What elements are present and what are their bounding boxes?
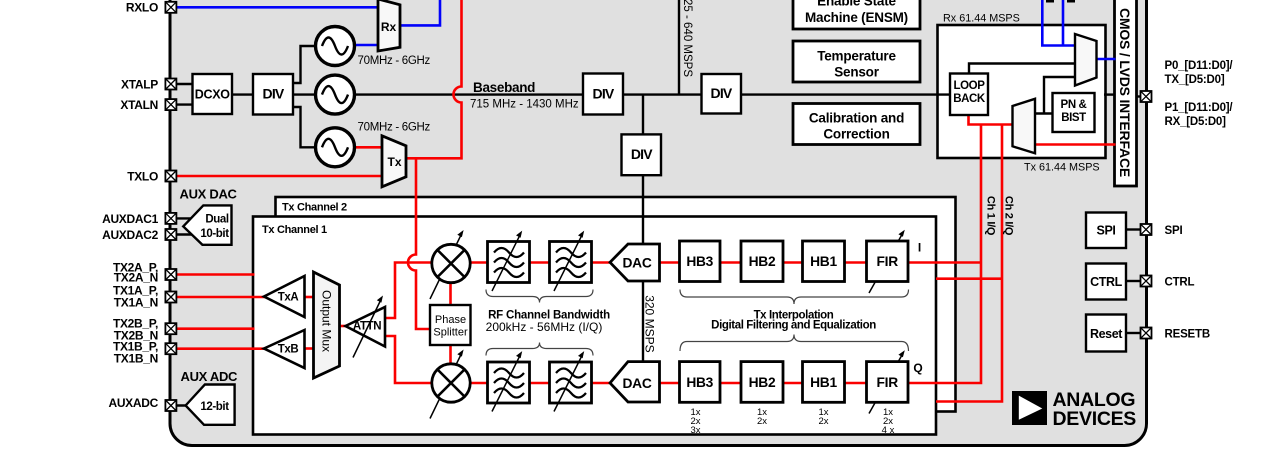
svg-text:Tx 61.44 MSPS: Tx 61.44 MSPS xyxy=(1024,162,1100,174)
svg-text:AUXADC: AUXADC xyxy=(108,396,158,410)
svg-text:FIR: FIR xyxy=(877,375,899,390)
svg-text:HB3: HB3 xyxy=(686,254,713,269)
svg-text:BACK: BACK xyxy=(953,93,986,105)
svg-text:Phase: Phase xyxy=(435,314,466,326)
svg-text:DIV: DIV xyxy=(263,85,285,101)
svg-text:SPI: SPI xyxy=(1165,225,1183,237)
svg-text:DEVICES: DEVICES xyxy=(1053,408,1137,430)
svg-text:Splitter: Splitter xyxy=(433,326,468,338)
svg-text:XTALN: XTALN xyxy=(120,98,158,112)
svg-text:Calibration and: Calibration and xyxy=(809,111,904,126)
svg-text:CTRL: CTRL xyxy=(1165,277,1195,289)
svg-text:HB2: HB2 xyxy=(749,375,776,390)
svg-text:Digital Filtering and Equaliza: Digital Filtering and Equalization xyxy=(711,320,876,332)
svg-text:DIV: DIV xyxy=(711,85,733,101)
svg-text:CTRL: CTRL xyxy=(1090,275,1122,289)
svg-text:Tx Channel 2: Tx Channel 2 xyxy=(282,202,347,214)
svg-text:TX_[D5:D0]: TX_[D5:D0] xyxy=(1165,74,1225,86)
svg-text:BIST: BIST xyxy=(1061,112,1086,124)
svg-text:I: I xyxy=(918,241,921,255)
svg-text:AUXDAC2: AUXDAC2 xyxy=(102,228,159,242)
svg-text:TXLO: TXLO xyxy=(127,169,158,183)
svg-text:Dual: Dual xyxy=(205,214,229,226)
svg-text:AUX DAC: AUX DAC xyxy=(180,187,238,202)
svg-text:P1_[D11:D0]/: P1_[D11:D0]/ xyxy=(1165,102,1234,114)
svg-text:DIV: DIV xyxy=(631,146,653,162)
svg-text:TxB: TxB xyxy=(278,344,299,356)
svg-text:DAC: DAC xyxy=(623,376,652,391)
svg-text:RX_[D5:D0]: RX_[D5:D0] xyxy=(1165,116,1227,128)
svg-text:Ch 2 I/Q: Ch 2 I/Q xyxy=(1003,196,1015,236)
svg-text:Tx Channel 1: Tx Channel 1 xyxy=(262,224,327,236)
svg-text:HB2: HB2 xyxy=(749,254,776,269)
svg-text:Temperature: Temperature xyxy=(817,49,896,64)
svg-text:PN &: PN & xyxy=(1061,99,1087,111)
svg-text:Ch 1 I/Q: Ch 1 I/Q xyxy=(985,196,997,236)
svg-text:LOOP: LOOP xyxy=(954,80,986,92)
svg-text:Tx: Tx xyxy=(387,155,401,169)
svg-text:Machine (ENSM): Machine (ENSM) xyxy=(805,10,908,25)
svg-text:DCXO: DCXO xyxy=(195,88,230,102)
svg-text:Rx: Rx xyxy=(381,20,397,34)
svg-text:320 MSPS: 320 MSPS xyxy=(643,295,657,352)
svg-text:70MHz - 6GHz: 70MHz - 6GHz xyxy=(358,55,431,67)
svg-text:TX1B_N: TX1B_N xyxy=(114,352,158,366)
svg-text:25 - 640 MSPS: 25 - 640 MSPS xyxy=(681,0,693,77)
svg-text:CMOS / LVDS INTERFACE: CMOS / LVDS INTERFACE xyxy=(1117,8,1133,177)
svg-text:FIR: FIR xyxy=(877,254,899,269)
svg-text:Correction: Correction xyxy=(823,127,889,142)
svg-text:2x: 2x xyxy=(757,416,767,427)
svg-text:HB1: HB1 xyxy=(810,375,837,390)
svg-text:3x: 3x xyxy=(690,425,700,436)
svg-text:Reset: Reset xyxy=(1090,327,1123,341)
svg-text:HB1: HB1 xyxy=(810,254,837,269)
svg-text:4 x: 4 x xyxy=(882,425,895,436)
svg-text:715 MHz - 1430 MHz: 715 MHz - 1430 MHz xyxy=(470,99,579,111)
svg-text:Rx 61.44 MSPS: Rx 61.44 MSPS xyxy=(943,13,1020,25)
svg-text:10-bit: 10-bit xyxy=(200,228,229,240)
svg-text:SPI: SPI xyxy=(1097,224,1116,238)
svg-text:DAC: DAC xyxy=(623,255,652,270)
svg-text:HB3: HB3 xyxy=(686,375,713,390)
svg-text:Q: Q xyxy=(913,361,922,375)
svg-text:TxA: TxA xyxy=(278,292,299,304)
svg-text:DIV: DIV xyxy=(593,85,615,101)
svg-text:Enable State: Enable State xyxy=(817,0,896,9)
svg-text:AUXDAC1: AUXDAC1 xyxy=(102,212,159,226)
svg-text:12-bit: 12-bit xyxy=(200,401,229,413)
svg-text:TX1A_N: TX1A_N xyxy=(114,296,158,310)
svg-text:70MHz - 6GHz: 70MHz - 6GHz xyxy=(358,122,431,134)
svg-text:RXLO: RXLO xyxy=(126,0,158,14)
svg-text:200kHz - 56MHz (I/Q): 200kHz - 56MHz (I/Q) xyxy=(486,320,603,334)
svg-text:2x: 2x xyxy=(818,416,828,427)
svg-text:P0_[D11:D0]/: P0_[D11:D0]/ xyxy=(1165,60,1234,72)
svg-text:Sensor: Sensor xyxy=(834,65,880,80)
svg-text:ATTN: ATTN xyxy=(353,321,381,333)
svg-text:AUX ADC: AUX ADC xyxy=(181,369,239,384)
svg-text:Output Mux: Output Mux xyxy=(320,290,334,352)
svg-text:XTALP: XTALP xyxy=(121,77,158,91)
svg-text:TX2A_N: TX2A_N xyxy=(114,271,158,285)
svg-text:Baseband: Baseband xyxy=(473,80,535,95)
svg-text:RESETB: RESETB xyxy=(1165,329,1210,341)
